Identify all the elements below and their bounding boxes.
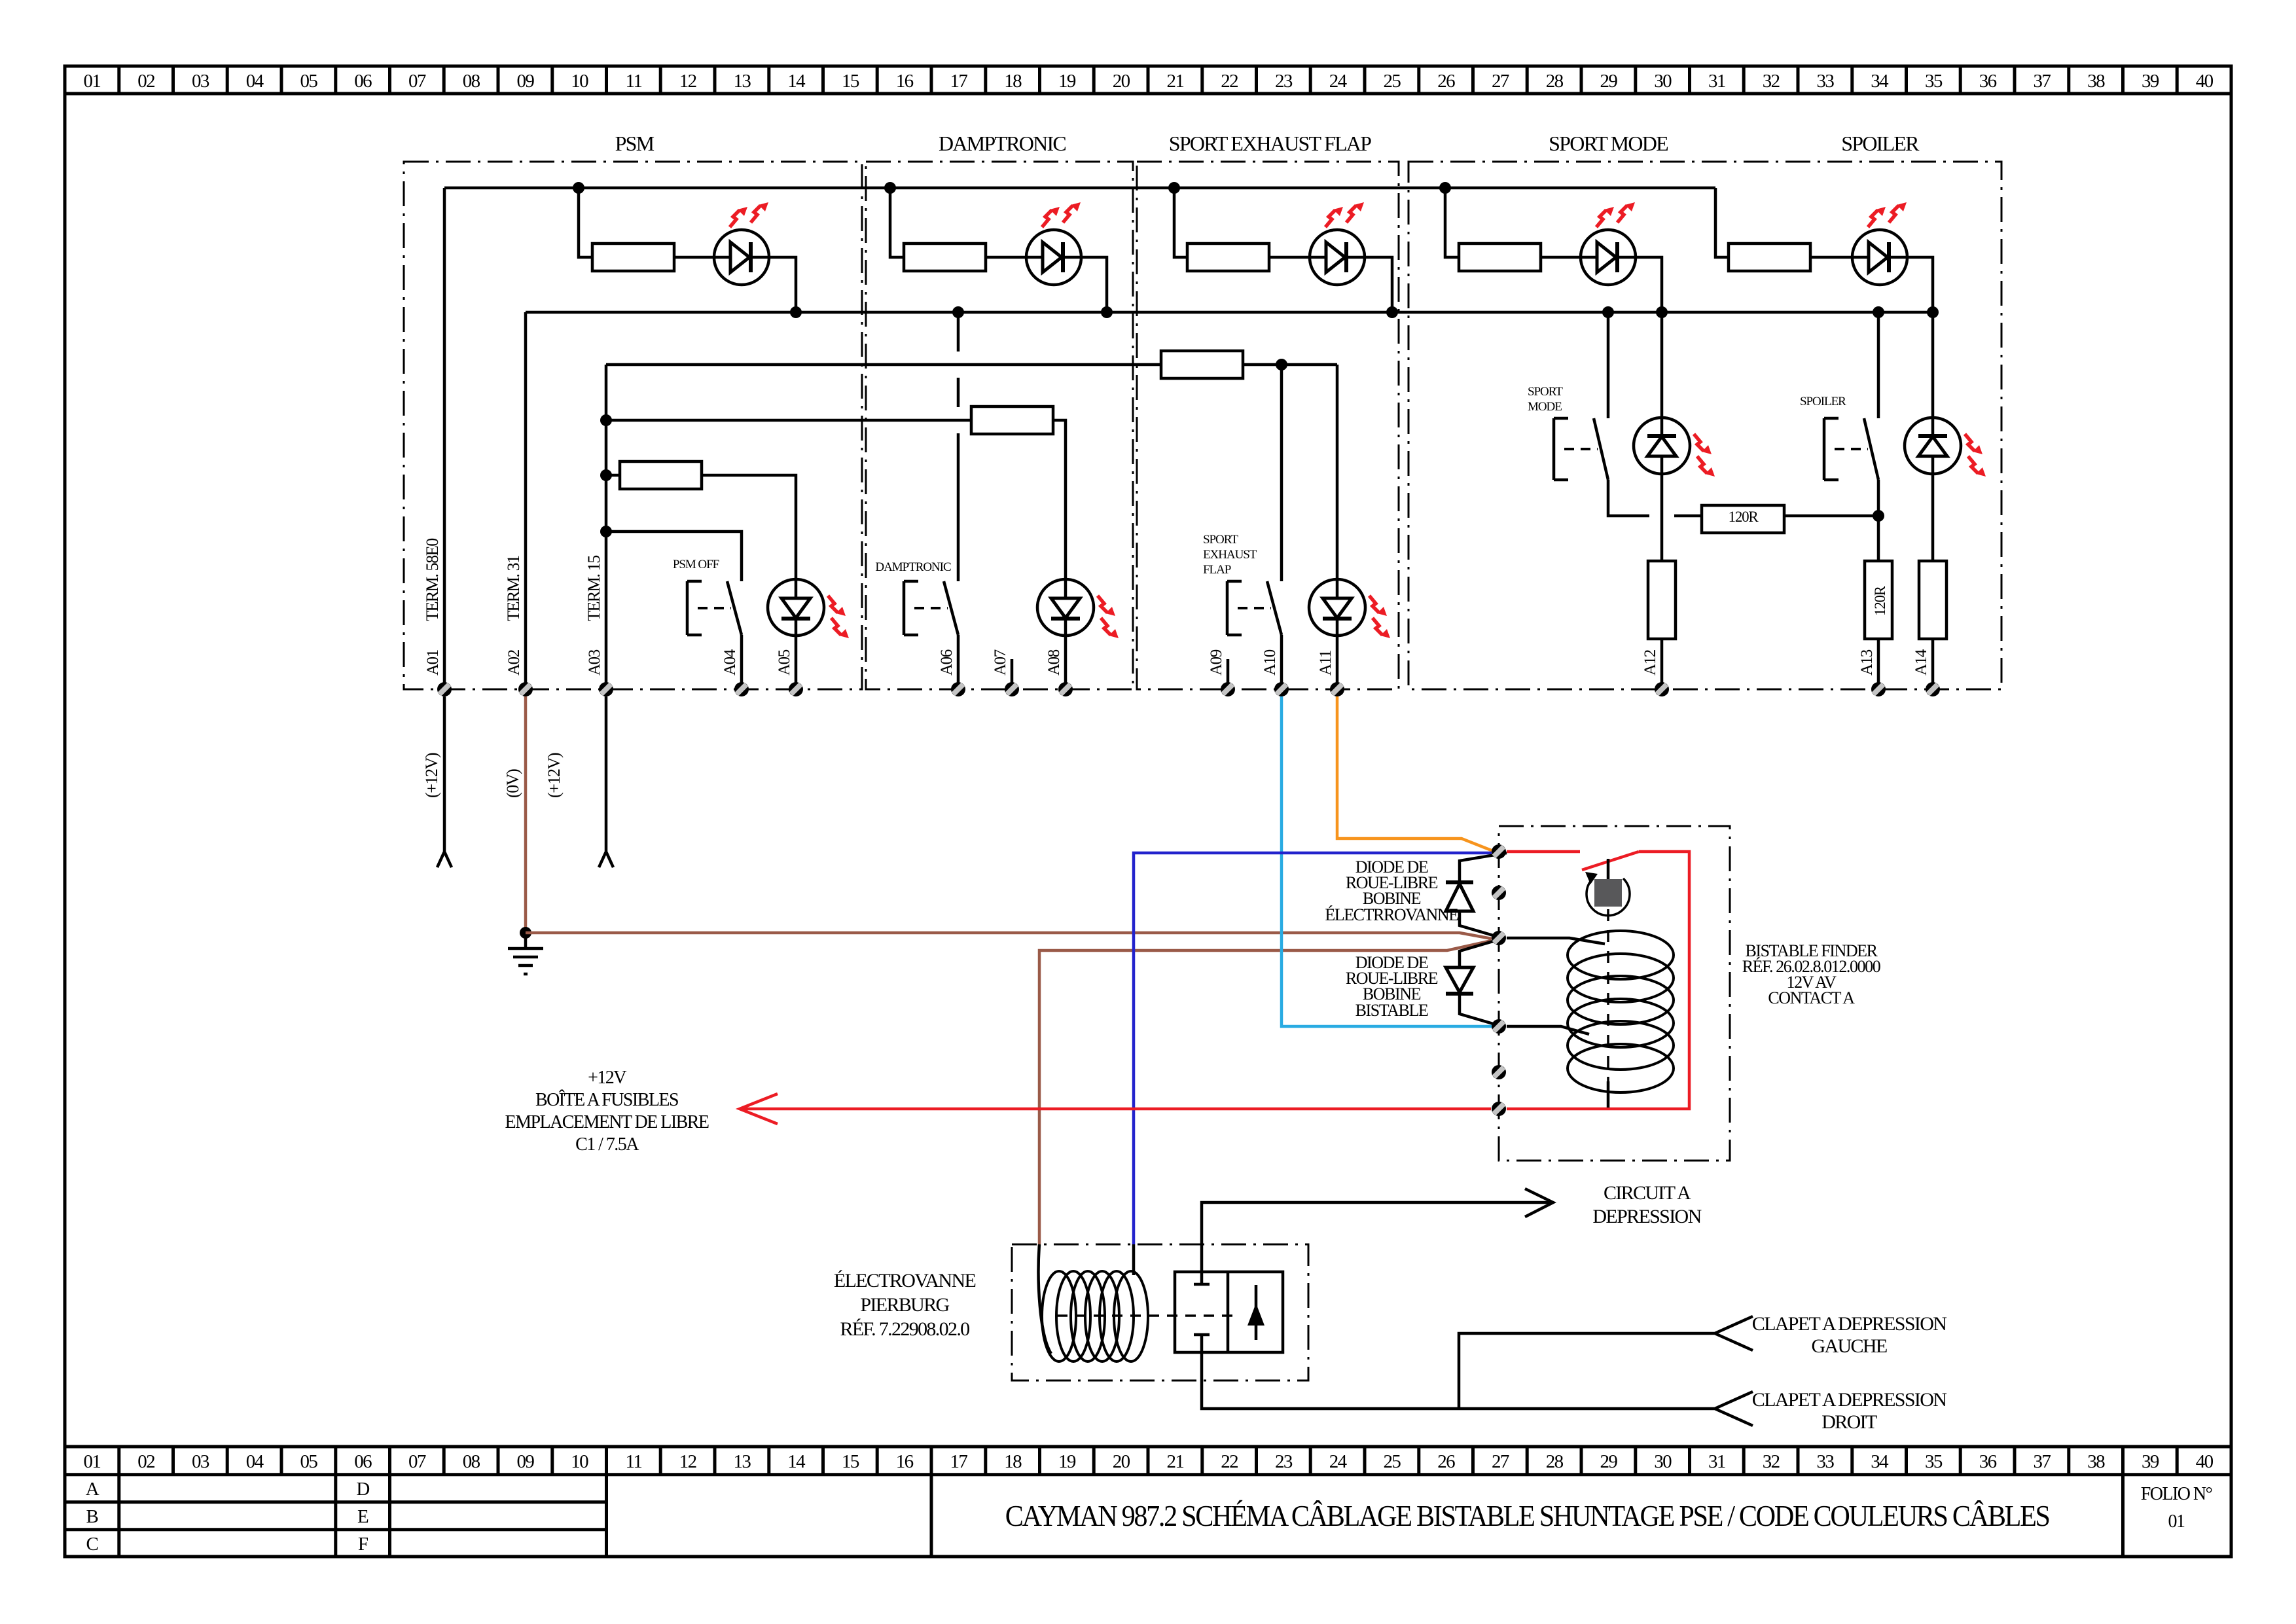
pin A14 <box>1926 682 1940 696</box>
wire LED to bus2 SEF <box>1365 257 1392 312</box>
wire resistor to LED PSM <box>674 256 714 259</box>
svg-text:15: 15 <box>842 71 859 92</box>
svg-text:SPOILER: SPOILER <box>1800 395 1846 408</box>
svg-text:20: 20 <box>1113 1451 1130 1472</box>
svg-text:21: 21 <box>1166 71 1183 92</box>
wire PSM switch feed <box>606 532 742 581</box>
wire pin3 to coil <box>1507 938 1605 944</box>
svg-text:32: 32 <box>1763 71 1780 92</box>
red light arrows DAMPTRONIC LED <box>1042 207 1060 227</box>
node A03 resistor junction <box>600 469 612 481</box>
svg-text:BOÎTE A FUSIBLES: BOÎTE A FUSIBLES <box>535 1090 678 1110</box>
node junction bus2 SPOILER <box>1927 306 1939 318</box>
switch SPOILER A13 <box>1864 418 1878 480</box>
svg-text:09: 09 <box>516 1451 534 1472</box>
wire PSM LED branch <box>579 188 592 257</box>
wire LED to bus2 PSM <box>769 257 796 312</box>
svg-text:02: 02 <box>137 71 154 92</box>
svg-text:32: 32 <box>1763 1451 1780 1472</box>
wire resistor to LED SEF <box>1269 256 1310 259</box>
wire LED to bus2 SPORT MODE <box>1636 257 1662 312</box>
svg-text:A: A <box>86 1479 99 1500</box>
svg-text:GAUCHE: GAUCHE <box>1811 1335 1886 1357</box>
wire SEF LED branch <box>1174 188 1187 257</box>
svg-text:35: 35 <box>1925 1451 1943 1472</box>
red light arrows PSM lamp <box>828 596 846 616</box>
svg-text:28: 28 <box>1546 71 1564 92</box>
wire busB <box>606 419 971 422</box>
svg-text:DAMPTRONIC: DAMPTRONIC <box>875 560 951 574</box>
wire switch to pin A06 <box>957 635 960 689</box>
svg-text:26: 26 <box>1437 71 1455 92</box>
node bus2 damptronic switch junction <box>952 306 964 318</box>
svg-text:25: 25 <box>1383 71 1401 92</box>
svg-text:MODE: MODE <box>1528 400 1562 414</box>
coil end right <box>1132 1244 1136 1275</box>
red light arrows PSM LED <box>730 207 747 227</box>
node junction bus2 SPORT MODE <box>1656 306 1668 318</box>
resistor SPORT MODE LED series <box>1459 244 1541 271</box>
wire PSM lamp feed <box>702 475 796 579</box>
wire pin4 to coil <box>1507 1026 1589 1034</box>
svg-text:01: 01 <box>83 1451 100 1472</box>
svg-text:05: 05 <box>300 71 317 92</box>
svg-text:33: 33 <box>1816 71 1834 92</box>
svg-text:A07: A07 <box>992 649 1009 676</box>
node SEF switch junction <box>1276 359 1287 370</box>
svg-text:CIRCUIT A: CIRCUIT A <box>1604 1182 1691 1204</box>
diode roue-libre bobine bistable D2 <box>1460 940 1498 1025</box>
svg-text:07: 07 <box>408 71 426 92</box>
wire brown bistable pin3 to electrovanne <box>1039 941 1492 1244</box>
pin bistable P3 <box>1492 931 1506 945</box>
DAMPTRONIC module box <box>866 162 1133 689</box>
svg-text:A03: A03 <box>586 649 603 676</box>
svg-text:25: 25 <box>1383 1451 1401 1472</box>
resistor DAMPTRONIC lamp series <box>971 406 1053 434</box>
wire busA term15 row <box>606 363 1161 367</box>
wire SPOILER LED branch <box>1715 188 1729 257</box>
wire sport mode lamp feed <box>1660 312 1664 418</box>
wire SPORT MODE LED branch <box>1445 188 1459 257</box>
svg-text:23: 23 <box>1275 71 1293 92</box>
wire bus1 +12V top <box>444 187 1715 190</box>
wire switch to pin A10 <box>1280 635 1283 689</box>
svg-text:C: C <box>86 1534 98 1555</box>
svg-text:40: 40 <box>2196 71 2214 92</box>
svg-text:A05: A05 <box>776 649 793 676</box>
node bus2 spoiler switch junction <box>1873 306 1884 318</box>
wire DAMPTRONIC LED branch <box>890 188 904 257</box>
wire A01 offpage <box>437 696 452 867</box>
wire A01 vertical <box>443 188 446 689</box>
SPORT EXHAUST FLAP module box <box>1137 162 1399 689</box>
coil bistable bottom stub <box>1607 1081 1610 1108</box>
wire damptronic switch feed (with crossing gaps) <box>957 312 960 581</box>
svg-text:17: 17 <box>950 71 967 92</box>
svg-text:22: 22 <box>1221 1451 1238 1472</box>
svg-text:04: 04 <box>246 71 264 92</box>
node junction bus1 DAMPTRONIC <box>884 182 896 194</box>
coil electrovanne <box>1042 1271 1076 1362</box>
wire resistor to LED DAMPTRONIC <box>986 256 1026 259</box>
node A03 busB junction <box>600 414 612 426</box>
resistor DAMPTRONIC LED series <box>904 244 986 271</box>
resistor PSM LED series <box>592 244 674 271</box>
pin A03 <box>599 682 613 696</box>
wire A03 offpage <box>599 696 613 867</box>
pin A02 <box>518 682 533 696</box>
ground symbol <box>508 933 543 974</box>
node junction bus1 PSM <box>573 182 584 194</box>
pin bistable P4 <box>1492 1019 1506 1034</box>
svg-text:24: 24 <box>1329 1451 1348 1472</box>
wire SEF resistor out <box>1243 363 1337 367</box>
svg-text:21: 21 <box>1166 1451 1183 1472</box>
svg-text:DAMPTRONIC: DAMPTRONIC <box>939 132 1066 155</box>
svg-text:18: 18 <box>1004 1451 1022 1472</box>
svg-text:34: 34 <box>1871 71 1889 92</box>
svg-text:06: 06 <box>354 1451 372 1472</box>
wire spoiler switch feed <box>1877 312 1880 418</box>
svg-text:28: 28 <box>1546 1451 1564 1472</box>
wire branch clapet gauche <box>1459 1316 1753 1409</box>
wire valve to clapets <box>1202 1335 1753 1426</box>
lamp PSM OFF indicator A05 <box>768 579 824 636</box>
svg-text:06: 06 <box>354 71 372 92</box>
svg-text:CONTACT A: CONTACT A <box>1768 988 1855 1007</box>
wire resistor to pin A14 <box>1931 639 1935 689</box>
svg-text:A14: A14 <box>1912 649 1930 676</box>
svg-text:13: 13 <box>733 71 751 92</box>
motor armature link <box>1607 859 1610 879</box>
svg-text:19: 19 <box>1058 71 1076 92</box>
red light arrows DAMPTRONIC lamp <box>1098 596 1115 616</box>
ELECTROVANNE PIERBURG box <box>1012 1244 1308 1380</box>
svg-text:A09: A09 <box>1208 649 1225 676</box>
svg-text:BISTABLE: BISTABLE <box>1355 1001 1428 1020</box>
pin A11 <box>1330 682 1344 696</box>
red light arrows SEF LED <box>1325 207 1343 227</box>
svg-text:29: 29 <box>1600 1451 1617 1472</box>
svg-text:SPOILER: SPOILER <box>1841 132 1920 155</box>
svg-text:120R: 120R <box>1872 585 1888 616</box>
wire cyan A10 to bistable pin4 <box>1282 696 1492 1026</box>
pin A01 <box>437 682 452 696</box>
node junction bus1 SEF <box>1168 182 1180 194</box>
red light arrows SEF lamp <box>1369 596 1387 616</box>
svg-text:08: 08 <box>463 1451 480 1472</box>
svg-text:08: 08 <box>463 71 480 92</box>
svg-text:(+12V): (+12V) <box>545 753 564 798</box>
svg-text:DROIT: DROIT <box>1821 1411 1877 1433</box>
resistor A12 vertical <box>1648 561 1676 639</box>
red light arrows SPOILER LED <box>1868 207 1886 227</box>
valve flow arrow <box>1255 1285 1258 1340</box>
svg-text:31: 31 <box>1708 1451 1725 1472</box>
svg-text:38: 38 <box>2087 1451 2105 1472</box>
svg-text:F: F <box>358 1534 368 1555</box>
svg-text:37: 37 <box>2033 1451 2051 1472</box>
pin bistable P6 <box>1492 1102 1506 1116</box>
svg-text:04: 04 <box>246 1451 264 1472</box>
wire red to fuse box with arrowhead <box>740 1094 1491 1124</box>
node junction bus1 SPORT MODE <box>1439 182 1451 194</box>
valve body <box>1175 1272 1283 1352</box>
svg-text:39: 39 <box>2142 1451 2159 1472</box>
svg-text:A02: A02 <box>505 649 523 676</box>
svg-text:01: 01 <box>83 71 100 92</box>
resistor 120R horizontal <box>1702 505 1784 533</box>
wire resistor to pin A12 <box>1660 639 1664 689</box>
svg-text:38: 38 <box>2087 71 2105 92</box>
svg-text:B: B <box>86 1506 98 1527</box>
wire resistor to pin A13 <box>1877 639 1880 689</box>
svg-text:17: 17 <box>950 1451 967 1472</box>
svg-text:CLAPET A DEPRESSION: CLAPET A DEPRESSION <box>1752 1389 1946 1411</box>
svg-text:27: 27 <box>1492 1451 1509 1472</box>
svg-text:31: 31 <box>1708 71 1725 92</box>
switch DAMPTRONIC A06 <box>944 581 958 635</box>
svg-text:16: 16 <box>896 71 914 92</box>
wire SEF lamp feed <box>1336 365 1339 579</box>
node junction bus2 PSM <box>790 306 802 318</box>
svg-text:E: E <box>357 1506 368 1527</box>
svg-text:A06: A06 <box>938 649 956 676</box>
svg-text:03: 03 <box>192 71 209 92</box>
pin A07 <box>1005 682 1019 696</box>
svg-text:(0V): (0V) <box>503 769 522 798</box>
svg-text:A12: A12 <box>1641 649 1659 676</box>
wire blue bistable pin1 to electrovanne <box>1134 853 1492 1244</box>
svg-text:13: 13 <box>733 1451 751 1472</box>
svg-text:33: 33 <box>1816 1451 1834 1472</box>
wire switch to pin A04 <box>740 635 744 689</box>
valve blocked port top <box>1194 1272 1210 1284</box>
coil bobine bistable <box>1568 931 1674 979</box>
svg-text:A01: A01 <box>424 650 442 676</box>
svg-text:14: 14 <box>787 71 806 92</box>
svg-text:SPORT EXHAUST FLAP: SPORT EXHAUST FLAP <box>1169 132 1371 155</box>
motor rotation arc <box>1587 878 1630 916</box>
diode roue-libre electrovanne D1 <box>1460 853 1507 937</box>
svg-text:11: 11 <box>626 1451 642 1472</box>
node junction bus2 DAMPTRONIC <box>1101 306 1113 318</box>
pin bistable P1 <box>1492 844 1506 859</box>
svg-text:A04: A04 <box>721 649 739 676</box>
svg-text:14: 14 <box>787 1451 806 1472</box>
coil end left <box>1039 1244 1051 1354</box>
svg-text:DEPRESSION: DEPRESSION <box>1592 1206 1701 1227</box>
switch PSM OFF A04 <box>727 581 742 635</box>
relay axis dashed <box>1607 909 1609 1081</box>
LED SEF telltale <box>1310 230 1365 285</box>
pin A09 <box>1221 682 1235 696</box>
resistor PSM lamp series <box>606 474 620 477</box>
bottom column strip <box>65 1445 2231 1449</box>
svg-text:36: 36 <box>1979 1451 1997 1472</box>
wire sport mode switch feed <box>1607 312 1610 418</box>
wire lamp to resistor A14 <box>1931 474 1935 561</box>
resistor SEF series <box>1161 351 1243 378</box>
svg-text:30: 30 <box>1654 71 1672 92</box>
node spoiler 120R junction <box>1873 510 1884 522</box>
svg-text:29: 29 <box>1600 71 1617 92</box>
svg-text:19: 19 <box>1058 1451 1076 1472</box>
svg-text:37: 37 <box>2033 71 2051 92</box>
wire red contact A <box>1507 852 1689 1109</box>
svg-text:CAYMAN 987.2 SCHÉMA CÂBLAGE BI: CAYMAN 987.2 SCHÉMA CÂBLAGE BISTABLE SHU… <box>1005 1499 2049 1532</box>
wire resistor to LED SPOILER <box>1810 256 1852 259</box>
svg-text:11: 11 <box>626 71 642 92</box>
wire damptronic lamp feed <box>1053 420 1066 579</box>
LED DAMPTRONIC telltale <box>1026 230 1081 285</box>
svg-text:12: 12 <box>679 1451 696 1472</box>
svg-text:PSM OFF: PSM OFF <box>673 558 719 571</box>
svg-text:RÉF. 7.22908.02.0: RÉF. 7.22908.02.0 <box>840 1318 969 1340</box>
wire lamp to pin A08 <box>1064 636 1067 689</box>
svg-text:39: 39 <box>2142 71 2159 92</box>
svg-text:07: 07 <box>408 1451 426 1472</box>
wire LED to bus2 DAMPTRONIC <box>1081 257 1107 312</box>
node junction bus2 SEF <box>1386 306 1398 318</box>
wire resistor to LED SPORT MODE <box>1541 256 1581 259</box>
svg-text:15: 15 <box>842 1451 859 1472</box>
switch SPORT EXHAUST FLAP A10 <box>1267 581 1282 635</box>
PSM module box <box>404 162 862 689</box>
svg-text:02: 02 <box>137 1451 154 1472</box>
valve blocked port bottom <box>1194 1333 1210 1337</box>
svg-text:09: 09 <box>516 71 534 92</box>
svg-text:26: 26 <box>1437 1451 1455 1472</box>
svg-text:FLAP: FLAP <box>1203 563 1231 577</box>
svg-text:10: 10 <box>571 71 588 92</box>
svg-text:16: 16 <box>896 1451 914 1472</box>
header column strip top <box>65 92 2231 96</box>
svg-text:10: 10 <box>571 1451 588 1472</box>
node A03 switch junction <box>600 526 612 537</box>
node bus2 sport-mode switch junction <box>1602 306 1614 318</box>
svg-text:24: 24 <box>1329 71 1348 92</box>
svg-text:TERM. 31: TERM. 31 <box>504 556 523 621</box>
svg-text:FOLIO N°: FOLIO N° <box>2141 1484 2212 1504</box>
red light arrows sport mode lamp <box>1694 434 1712 454</box>
wire brown bus to bistable pin3 <box>526 933 1492 939</box>
svg-text:40: 40 <box>2196 1451 2214 1472</box>
pin A12 <box>1655 682 1669 696</box>
lamp DAMPTRONIC indicator A08 <box>1037 579 1094 636</box>
SPORT MODE / SPOILER module box <box>1408 162 2001 689</box>
switch SPORT MODE A12 <box>1594 418 1608 480</box>
svg-text:A11: A11 <box>1317 651 1335 676</box>
red light arrows SPORT MODE LED <box>1596 207 1614 227</box>
svg-text:120R: 120R <box>1729 509 1759 525</box>
pin A13 <box>1871 682 1886 696</box>
lamp SEF indicator A11 <box>1309 579 1365 636</box>
LED PSM telltale <box>714 230 769 285</box>
svg-text:12: 12 <box>679 71 696 92</box>
valve axis dashed <box>1057 1314 1237 1317</box>
node ground junction <box>520 927 531 939</box>
pin bistable P2 <box>1492 886 1506 900</box>
wire 120R to spoiler node <box>1784 514 1878 518</box>
svg-text:SPORT: SPORT <box>1203 533 1238 547</box>
svg-text:(+12V): (+12V) <box>422 753 441 798</box>
svg-text:34: 34 <box>1871 1451 1889 1472</box>
wire A02 brown to ground <box>524 696 528 933</box>
svg-text:22: 22 <box>1221 71 1238 92</box>
svg-text:27: 27 <box>1492 71 1509 92</box>
stub pin A09 <box>1227 659 1230 689</box>
svg-text:SPORT MODE: SPORT MODE <box>1549 132 1668 155</box>
svg-text:TERM. 15: TERM. 15 <box>584 556 603 621</box>
wire lamp to pin A11 <box>1336 636 1339 689</box>
pin bistable P5 <box>1492 1065 1506 1079</box>
resistor SEF LED series <box>1187 244 1269 271</box>
wire bus2 <box>526 311 1933 314</box>
svg-text:01: 01 <box>2168 1511 2185 1532</box>
svg-text:30: 30 <box>1654 1451 1672 1472</box>
svg-text:TERM. 58E0: TERM. 58E0 <box>423 538 442 621</box>
svg-text:EXHAUST: EXHAUST <box>1203 548 1257 562</box>
svg-text:35: 35 <box>1925 71 1943 92</box>
wire sport mode switch to 120R <box>1608 480 1702 516</box>
wire A03 vertical <box>605 365 608 689</box>
wire orange A11 to bistable pin1 <box>1337 696 1493 851</box>
svg-text:D: D <box>356 1479 369 1500</box>
svg-text:A08: A08 <box>1045 649 1063 676</box>
BISTABLE FINDER box <box>1499 826 1730 1161</box>
red light arrows spoiler lamp <box>1965 434 1982 454</box>
svg-text:CLAPET A DEPRESSION: CLAPET A DEPRESSION <box>1752 1313 1946 1335</box>
svg-text:ÉLECTRROVANNE: ÉLECTRROVANNE <box>1325 905 1458 924</box>
LED SPORT MODE telltale <box>1581 230 1636 285</box>
revision table lines <box>117 1475 120 1557</box>
lamp SPORT MODE indicator <box>1634 418 1690 474</box>
LED SPOILER telltale <box>1852 230 1907 285</box>
resistor A14 vertical <box>1919 561 1946 639</box>
wire spoiler switch to junction <box>1877 480 1880 561</box>
svg-text:A10: A10 <box>1261 649 1279 676</box>
pin A05 <box>789 682 803 696</box>
svg-text:36: 36 <box>1979 71 1997 92</box>
motor symbol square <box>1594 879 1622 907</box>
pin A10 <box>1274 682 1289 696</box>
svg-text:05: 05 <box>300 1451 317 1472</box>
wire SEF switch feed <box>1280 365 1283 581</box>
wire lamp to resistor A12 <box>1660 474 1664 561</box>
svg-text:18: 18 <box>1004 71 1022 92</box>
svg-text:03: 03 <box>192 1451 209 1472</box>
resistor SPOILER LED series <box>1729 244 1810 271</box>
svg-text:C1 / 7.5A: C1 / 7.5A <box>575 1134 639 1155</box>
svg-text:ÉLECTROVANNE: ÉLECTROVANNE <box>834 1270 976 1291</box>
wire A02 vertical <box>524 312 528 689</box>
svg-text:20: 20 <box>1113 71 1130 92</box>
svg-text:SPORT: SPORT <box>1528 385 1563 399</box>
resistor 120R A13 vertical <box>1865 561 1892 639</box>
lamp SPOILER indicator <box>1905 418 1961 474</box>
wire lamp to pin A05 <box>795 636 798 689</box>
svg-text:PSM: PSM <box>615 132 655 155</box>
svg-text:EMPLACEMENT DE LIBRE: EMPLACEMENT DE LIBRE <box>505 1112 709 1132</box>
wire spoiler lamp feed <box>1931 312 1935 418</box>
pin A04 <box>734 682 749 696</box>
svg-text:A13: A13 <box>1858 649 1876 676</box>
svg-text:+12V: +12V <box>588 1068 626 1088</box>
pin A08 <box>1058 682 1073 696</box>
pin A06 <box>951 682 965 696</box>
